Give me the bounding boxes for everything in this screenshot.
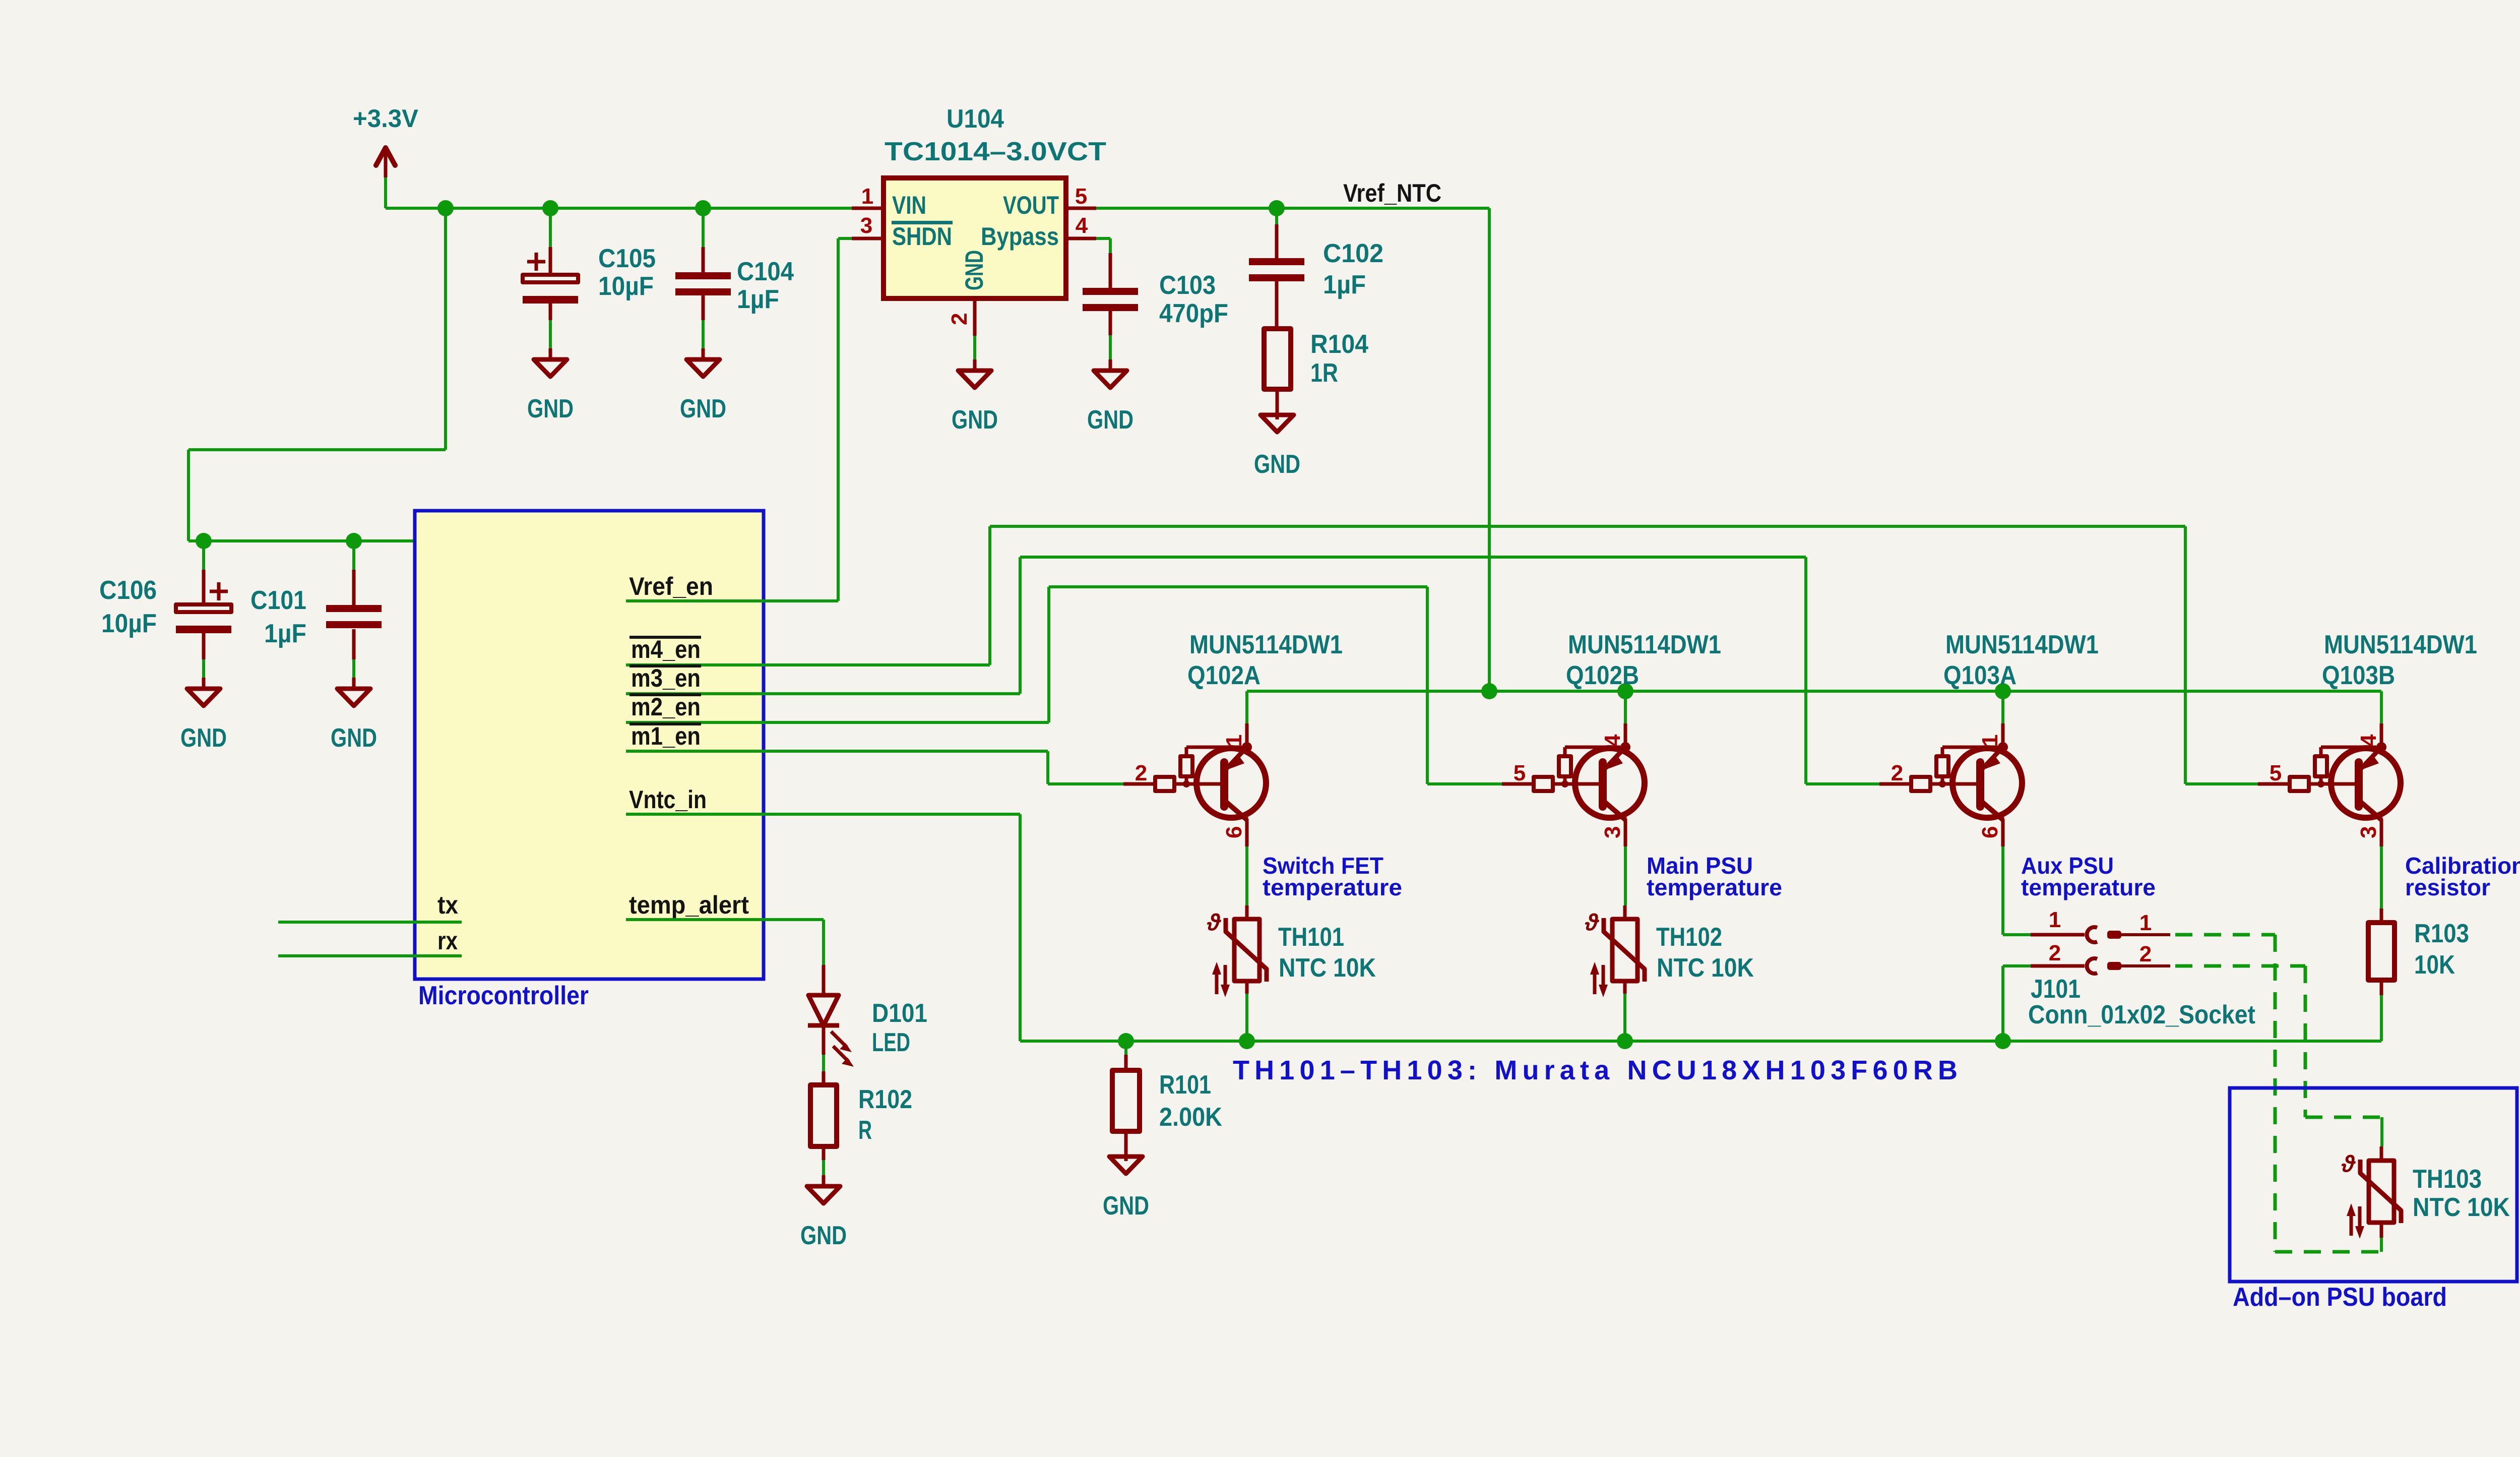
microcontroller box xyxy=(415,511,764,979)
svg-text:5: 5 xyxy=(2270,761,2282,785)
svg-text:470pF: 470pF xyxy=(1159,299,1228,328)
mating plug pin 1 xyxy=(2107,910,2170,939)
svg-text:ϑ: ϑ xyxy=(2341,1150,2356,1177)
wire C105 top lead xyxy=(549,208,552,247)
wire D101 to R102 xyxy=(822,1055,825,1071)
wire Vref_en xyxy=(626,599,838,602)
wire m3_en to Q103A xyxy=(1806,782,1879,785)
svg-text:Conn_01x02_Socket: Conn_01x02_Socket xyxy=(2028,1000,2255,1029)
svg-text:R102: R102 xyxy=(858,1085,912,1114)
svg-text:10µF: 10µF xyxy=(598,272,654,301)
regulator U104 TC1014-3.0VCT xyxy=(884,104,1106,298)
ground (C106) xyxy=(180,678,227,753)
junction C104 tap xyxy=(695,200,711,216)
node m2_en xyxy=(629,693,701,696)
wire remote sense 1 down xyxy=(2274,935,2277,1252)
svg-text:MUN5114DW1: MUN5114DW1 xyxy=(1945,630,2099,659)
ground (R104) xyxy=(1254,404,1300,479)
svg-text:Q102A: Q102A xyxy=(1187,661,1261,690)
svg-text:resistor: resistor xyxy=(2405,874,2490,900)
svg-text:5: 5 xyxy=(1514,761,1526,785)
wire Vref_NTC net xyxy=(1096,207,1489,210)
svg-text:GND: GND xyxy=(527,394,574,423)
svg-text:10µF: 10µF xyxy=(101,609,157,638)
wire Vntc_in down xyxy=(1019,814,1022,1041)
wire remote sense 2 xyxy=(2175,964,2305,968)
svg-text:Add–on PSU board: Add–on PSU board xyxy=(2233,1283,2447,1312)
wire m1_en to Q102A xyxy=(1048,782,1123,785)
svg-text:6: 6 xyxy=(1978,826,2002,838)
svg-text:C102: C102 xyxy=(1323,239,1383,268)
svg-text:MUN5114DW1: MUN5114DW1 xyxy=(2324,630,2477,659)
wire Q102B emitter drop xyxy=(1624,691,1627,723)
svg-text:+3.3V: +3.3V xyxy=(353,104,419,133)
capacitor C102 xyxy=(1275,224,1279,258)
svg-text:GND: GND xyxy=(960,250,988,290)
wire Vref_NTC vertical xyxy=(1488,208,1491,691)
wire m3_en down xyxy=(1804,557,1807,784)
svg-text:4: 4 xyxy=(1076,213,1088,238)
svg-text:m2_en: m2_en xyxy=(631,693,701,721)
wire m3_en from micro xyxy=(626,692,1020,695)
pin 5 VOUT xyxy=(1066,207,1096,210)
svg-text:temperature: temperature xyxy=(2021,874,2156,900)
wire J101 pin1 feed xyxy=(2003,933,2031,936)
wire m2_en to Q102B xyxy=(1427,782,1502,785)
svg-text:R103: R103 xyxy=(2414,919,2469,948)
resistor R103 xyxy=(2380,908,2383,923)
svg-text:GND: GND xyxy=(1087,405,1133,435)
wire m2_en from micro xyxy=(626,721,1049,724)
svg-text:4: 4 xyxy=(1600,734,1625,747)
resistor R101 body xyxy=(1112,1070,1140,1131)
wire m3_en across xyxy=(1020,556,1806,559)
node m1_en xyxy=(629,722,701,725)
svg-text:VOUT: VOUT xyxy=(1003,191,1059,219)
connector J101 pin 1 xyxy=(2003,907,2097,942)
wire C103 bottom lead xyxy=(1109,335,1112,362)
ground (C104) xyxy=(680,348,726,423)
wire m4_en up xyxy=(988,526,991,665)
power symbol +3.3V xyxy=(353,104,419,177)
wire m4_en from micro xyxy=(626,663,990,666)
wire Q103A emitter drop xyxy=(2001,691,2004,723)
svg-text:J101: J101 xyxy=(2031,975,2081,1004)
wire Q102B to TH102 xyxy=(1624,846,1627,905)
svg-text:GND: GND xyxy=(680,394,726,423)
svg-text:TH102: TH102 xyxy=(1656,923,1722,952)
wire branch down from +3.3V xyxy=(444,208,447,450)
svg-text:3: 3 xyxy=(2356,826,2381,838)
node m4_en xyxy=(629,636,701,639)
capacitor C106 plates xyxy=(176,582,231,633)
svg-text:1µF: 1µF xyxy=(737,285,779,314)
svg-text:m4_en: m4_en xyxy=(631,635,701,663)
capacitor C102 plates xyxy=(1249,258,1304,281)
wire C104 bottom lead xyxy=(702,320,705,351)
ground (R102) xyxy=(800,1175,847,1250)
svg-text:GND: GND xyxy=(180,723,227,753)
pin 3 SHDN xyxy=(852,237,884,240)
svg-text:m1_en: m1_en xyxy=(631,722,701,750)
capacitor C101 xyxy=(352,570,356,605)
svg-text:1: 1 xyxy=(2139,910,2152,935)
wire Q102A to TH101 xyxy=(1245,846,1248,905)
svg-text:3: 3 xyxy=(860,213,872,238)
svg-text:LED: LED xyxy=(872,1028,910,1057)
connector J101 pin 2 xyxy=(2003,941,2097,1041)
wire m3_en up xyxy=(1019,557,1022,694)
wire C105 bottom lead xyxy=(549,320,552,351)
svg-text:temperature: temperature xyxy=(1263,874,1402,900)
junction Q102B emitter tap xyxy=(1617,683,1633,699)
svg-text:m3_en: m3_en xyxy=(631,664,701,692)
wire J101 pin2 feed xyxy=(2003,964,2031,967)
svg-text:1: 1 xyxy=(2049,907,2061,932)
wire m1_en from micro xyxy=(626,750,1048,753)
wire remote sense 1 xyxy=(2175,933,2275,937)
svg-text:C103: C103 xyxy=(1159,271,1216,300)
capacitor C104 xyxy=(702,247,705,272)
wire remote sense 1 to TH103 xyxy=(2275,1250,2381,1254)
svg-text:TH101: TH101 xyxy=(1278,923,1344,952)
ground (R101) xyxy=(1103,1145,1149,1221)
ground (C101) xyxy=(331,678,377,753)
wire TH103 bottom lead xyxy=(2380,1238,2383,1252)
wire Bypass down xyxy=(1109,238,1112,253)
wire remote sense 2 down xyxy=(2304,966,2307,1117)
wire C104 top lead xyxy=(702,208,705,247)
svg-text:U104: U104 xyxy=(947,104,1004,134)
svg-text:Microcontroller: Microcontroller xyxy=(418,981,589,1010)
svg-text:ϑ: ϑ xyxy=(1585,909,1600,935)
svg-text:temperature: temperature xyxy=(1647,874,1782,900)
svg-text:temp_alert: temp_alert xyxy=(629,891,749,919)
junction TH102 tap xyxy=(1617,1033,1633,1049)
wire R102 to GND xyxy=(822,1160,825,1178)
wire m1_en jog xyxy=(1046,751,1049,784)
wire Bypass stub xyxy=(1096,237,1110,240)
svg-text:1: 1 xyxy=(1978,735,2002,747)
svg-text:R: R xyxy=(858,1116,872,1145)
ground (C103) xyxy=(1087,359,1133,435)
thermistor TH102 NTC xyxy=(1585,909,1645,997)
svg-text:1µF: 1µF xyxy=(1323,270,1366,299)
wire m2_en across xyxy=(1049,585,1427,588)
wire C102 top lead xyxy=(1275,208,1278,224)
svg-text:Q102B: Q102B xyxy=(1566,661,1639,690)
svg-text:C106: C106 xyxy=(99,576,157,605)
wire Q103A to J101 xyxy=(2001,846,2004,935)
svg-text:SHDN: SHDN xyxy=(892,222,952,251)
svg-text:Vntc_in: Vntc_in xyxy=(629,785,707,814)
svg-text:GND: GND xyxy=(331,723,377,753)
wire m2_en down xyxy=(1426,587,1429,784)
svg-text:2.00K: 2.00K xyxy=(1159,1103,1222,1132)
wire +3.3V rail to U104 VIN xyxy=(386,207,852,210)
svg-text:GND: GND xyxy=(952,405,998,435)
wire C101 top lead xyxy=(352,541,355,570)
thermistor TH103 NTC xyxy=(2341,1150,2401,1239)
svg-text:MUN5114DW1: MUN5114DW1 xyxy=(1568,630,1721,659)
transistor Q103A MUN5114DW1 xyxy=(1879,630,2099,846)
mating plug pin 2 xyxy=(2107,942,2170,970)
wire TH101 to rail xyxy=(1245,994,1248,1041)
resistor R102 xyxy=(822,1071,826,1085)
capacitor C103 xyxy=(1109,253,1112,288)
thermistor TH102 leads xyxy=(1623,905,1627,919)
svg-text:ϑ: ϑ xyxy=(1207,909,1222,935)
svg-text:GND: GND xyxy=(1254,450,1300,479)
wire C101 bottom lead xyxy=(352,659,355,681)
wire m4_en to Q103B xyxy=(2185,782,2258,785)
svg-text:2: 2 xyxy=(947,313,972,325)
svg-text:2: 2 xyxy=(1891,761,1903,785)
svg-text:D101: D101 xyxy=(872,999,927,1028)
junction Q103A emitter tap xyxy=(1995,683,2011,699)
capacitor C105 plates xyxy=(523,253,578,303)
wire tx xyxy=(278,921,462,924)
wire +3.3V feed to microcontroller xyxy=(188,539,476,542)
svg-text:1: 1 xyxy=(861,184,873,209)
thermistor TH103 leads xyxy=(2380,1146,2383,1161)
svg-text:2: 2 xyxy=(1135,761,1147,785)
wire rx xyxy=(278,954,462,957)
svg-text:C101: C101 xyxy=(250,586,306,615)
svg-text:3: 3 xyxy=(1600,826,1625,838)
svg-text:4: 4 xyxy=(2356,734,2381,747)
junction J101 pin2 tap xyxy=(1995,1033,2011,1049)
wire m2_en up xyxy=(1047,587,1050,722)
LED D101 xyxy=(808,965,854,1067)
svg-text:1µF: 1µF xyxy=(264,619,306,648)
svg-text:TC1014–3.0VCT: TC1014–3.0VCT xyxy=(885,137,1106,166)
ground (C105) xyxy=(527,348,574,423)
svg-text:2: 2 xyxy=(2139,942,2152,966)
transistor Q102B MUN5114DW1 xyxy=(1502,630,1721,846)
svg-text:1: 1 xyxy=(1222,735,1246,747)
svg-text:NTC 10K: NTC 10K xyxy=(2413,1193,2510,1222)
pin 2 GND xyxy=(973,298,977,336)
junction C106 tap xyxy=(196,533,212,549)
svg-text:NTC 10K: NTC 10K xyxy=(1657,953,1754,983)
svg-text:C104: C104 xyxy=(737,257,794,286)
svg-text:5: 5 xyxy=(1075,184,1087,209)
wire NTC common rail xyxy=(1020,1040,2381,1043)
wire Q102A emitter drop xyxy=(1245,691,1248,723)
resistor R102 body xyxy=(810,1085,837,1146)
svg-text:10K: 10K xyxy=(2414,950,2455,980)
svg-text:Vref_en: Vref_en xyxy=(629,572,713,600)
transistor Q103B MUN5114DW1 xyxy=(2258,630,2477,846)
wire Q103B to R103 xyxy=(2380,846,2383,908)
wire power stem xyxy=(384,177,387,208)
svg-text:Q103B: Q103B xyxy=(2322,661,2395,690)
svg-text:NTC 10K: NTC 10K xyxy=(1279,953,1376,983)
pin 4 Bypass xyxy=(1066,237,1096,240)
wire J101 pin2 to rail xyxy=(2001,966,2004,1041)
svg-text:6: 6 xyxy=(1222,826,1246,838)
wire R101 top lead xyxy=(1124,1041,1127,1055)
wire R103 to rail xyxy=(2380,995,2383,1041)
svg-text:1R: 1R xyxy=(1310,358,1338,388)
resistor R104 xyxy=(1264,329,1291,389)
wire C106 bottom lead xyxy=(202,659,205,681)
junction +3.3V/C106 branch xyxy=(437,200,454,216)
svg-text:VIN: VIN xyxy=(892,191,926,219)
capacitor C104 plates xyxy=(675,272,731,295)
junction Vref_NTC feed xyxy=(1481,683,1497,699)
svg-text:Vref_NTC: Vref_NTC xyxy=(1343,179,1441,207)
ground (U104) xyxy=(952,359,998,435)
svg-text:MUN5114DW1: MUN5114DW1 xyxy=(1189,630,1343,659)
wire remote sense 2 to TH103 xyxy=(2305,1116,2382,1119)
wire branch down xyxy=(187,450,190,541)
svg-text:rx: rx xyxy=(437,927,458,955)
svg-text:2: 2 xyxy=(2049,941,2061,965)
wire C106 top lead xyxy=(202,541,205,570)
wire branch left xyxy=(188,448,446,451)
wire U104 GND lead xyxy=(973,336,976,362)
junction R101 tap xyxy=(1118,1033,1134,1049)
thermistor TH101 NTC xyxy=(1207,909,1267,997)
junction C101 tap xyxy=(346,533,362,549)
wire m4_en across xyxy=(990,525,2185,528)
add-on PSU board outline xyxy=(2230,1088,2517,1282)
wire Vref_NTC rail xyxy=(1247,690,2381,693)
pin 1 VIN xyxy=(852,207,884,210)
capacitor C101 plates xyxy=(326,605,382,628)
wire Q103B emitter drop xyxy=(2380,691,2383,723)
transistor Q102A MUN5114DW1 xyxy=(1123,630,1343,846)
wire temp_alert down xyxy=(822,920,825,965)
capacitor C105 xyxy=(549,247,552,275)
node m3_en xyxy=(629,664,701,667)
wire TH102 to rail xyxy=(1623,994,1626,1041)
svg-text:R104: R104 xyxy=(1310,330,1368,359)
svg-text:GND: GND xyxy=(800,1221,847,1250)
svg-text:Q103A: Q103A xyxy=(1943,661,2017,690)
capacitor C103 plates xyxy=(1083,288,1138,311)
resistor R103 body xyxy=(2368,923,2395,980)
svg-text:tx: tx xyxy=(437,891,458,919)
wire temp_alert xyxy=(626,918,824,921)
junction TH101 tap xyxy=(1239,1033,1255,1049)
svg-text:R101: R101 xyxy=(1159,1070,1211,1100)
thermistor TH101 leads xyxy=(1245,905,1249,919)
wire m4_en down xyxy=(2184,526,2187,784)
svg-text:C105: C105 xyxy=(598,244,656,273)
wire Vref_en vertical xyxy=(837,238,840,601)
capacitor C106 xyxy=(202,570,206,604)
svg-text:TH103: TH103 xyxy=(2413,1165,2482,1194)
svg-text:Bypass: Bypass xyxy=(981,222,1059,251)
junction C102 tap xyxy=(1269,200,1285,216)
junction C105 tap xyxy=(542,200,558,216)
resistor R101 xyxy=(1124,1055,1128,1070)
wire TH103 top lead xyxy=(2380,1117,2383,1146)
wire SHDN stub xyxy=(838,237,852,240)
svg-text:GND: GND xyxy=(1103,1191,1149,1221)
wire Vntc_in from micro xyxy=(626,813,1020,816)
